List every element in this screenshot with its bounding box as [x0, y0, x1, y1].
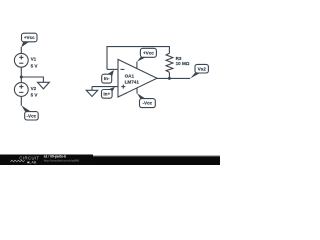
Vs2 flag [190, 64, 208, 78]
svg-text:5 V: 5 V [31, 63, 39, 68]
node junction output/R3 [168, 77, 171, 80]
ground (op-amp) [86, 87, 98, 97]
svg-text:LM741: LM741 [125, 79, 140, 84]
V- power pin [136, 88, 138, 94]
svg-text:10 MΩ: 10 MΩ [176, 61, 190, 66]
voltage source V2 [14, 83, 38, 98]
svg-text:+Vcc: +Vcc [24, 35, 35, 40]
In- flag [102, 70, 114, 83]
ground (left) [38, 82, 50, 89]
voltage source V1 [14, 53, 38, 68]
svg-text:■LAB: ■LAB [27, 160, 37, 164]
svg-text:5 V: 5 V [31, 93, 39, 98]
resistor R3 [166, 53, 190, 78]
svg-text:In+: In+ [103, 92, 110, 97]
wire in- pin [107, 68, 118, 70]
+Vcc flag (op-amp) [137, 48, 157, 62]
wire V2 to -Vcc flag [20, 96, 22, 105]
svg-text:V2: V2 [31, 86, 37, 91]
svg-text:V1: V1 [31, 57, 37, 62]
svg-text:http://circuitlab.com/c/pd8r9: http://circuitlab.com/c/pd8r9 [44, 159, 80, 163]
op-amp U1 OA1 LM741 [118, 59, 157, 97]
In+ flag [102, 87, 116, 98]
wire V1 to V2 [20, 67, 22, 82]
svg-text:OA1: OA1 [125, 74, 135, 79]
feedback wire top [107, 47, 169, 70]
-Vcc flag (op-amp) [137, 93, 155, 107]
svg-text:In-: In- [104, 76, 110, 81]
node junction between V1 and V2 [20, 76, 23, 79]
output wire [157, 77, 190, 79]
-Vcc flag (left bottom) [21, 105, 38, 120]
svg-text:Vs2: Vs2 [198, 66, 207, 71]
V+ power pin [136, 62, 138, 69]
wire flag to V1 [20, 47, 22, 53]
svg-text:-Vcc: -Vcc [143, 101, 153, 106]
wire junction to ground [21, 77, 43, 82]
wire in+ pin [92, 86, 118, 88]
+Vcc flag (left top) [21, 33, 37, 47]
svg-text:+Vcc: +Vcc [143, 50, 154, 55]
svg-text:-Vcc: -Vcc [27, 113, 37, 118]
watermark bar [0, 154, 220, 165]
